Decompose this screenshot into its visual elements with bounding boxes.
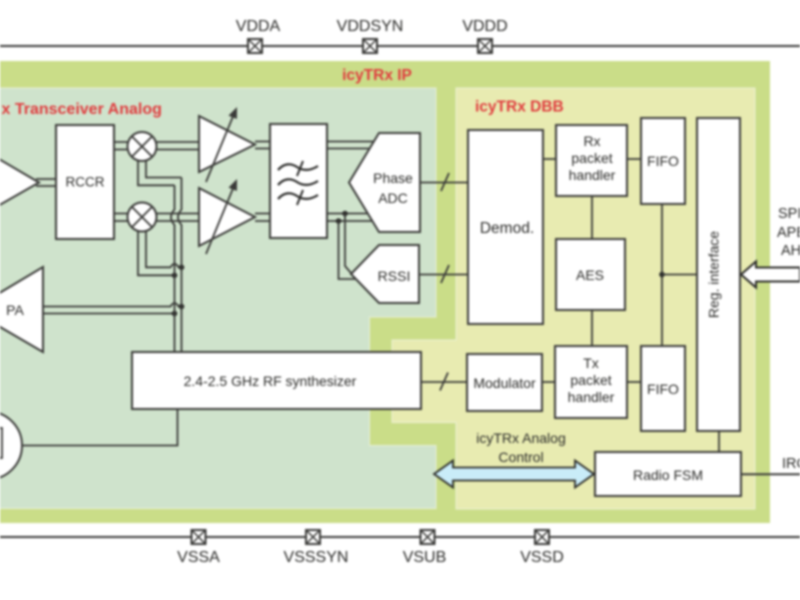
oscillator circle bbox=[0, 412, 22, 480]
region Transceiver Analog (sage) bbox=[0, 88, 436, 509]
svg-text:VDDD: VDDD bbox=[462, 18, 507, 35]
wire LO to mixer M1 (outer) bbox=[138, 161, 175, 185]
wire Rx packet handler to AES bbox=[591, 196, 593, 239]
svg-text:Rx: Rx bbox=[583, 133, 600, 149]
wire filter to Phase ADC (lower pair) bbox=[327, 214, 372, 222]
svg-text:SPI: SPI bbox=[778, 206, 800, 222]
block Rx packet handler bbox=[556, 125, 627, 196]
node tap to RSSI (lower) bbox=[336, 218, 342, 224]
outer region icyTRx IP bbox=[0, 61, 770, 523]
svg-text:Modulator: Modulator bbox=[473, 375, 536, 391]
wire amp A2 to filter bbox=[255, 214, 270, 222]
wire Tx packet handler to FIFO Tx bbox=[627, 381, 641, 383]
svg-text:icyTRx DBB: icyTRx DBB bbox=[475, 99, 564, 116]
wire Rx packet handler to FIFO bbox=[627, 158, 641, 160]
svg-text:Tx: Tx bbox=[583, 355, 599, 371]
svg-text:Reg. interface: Reg. interface bbox=[706, 231, 722, 318]
block RSSI bbox=[351, 245, 419, 303]
svg-text:packet: packet bbox=[570, 372, 611, 388]
svg-text:VSSSYN: VSSSYN bbox=[284, 549, 349, 566]
region icyTRx DBB (yellow) bbox=[392, 88, 755, 509]
wire Demod to Rx packet handler bbox=[543, 158, 556, 160]
wire LNA to RCCR (differential pair) bbox=[36, 179, 56, 186]
block RCCR bbox=[56, 125, 114, 239]
svg-text:RCCR: RCCR bbox=[66, 175, 105, 190]
block FIFO Tx bbox=[641, 346, 685, 431]
pad VDDSYN bbox=[337, 18, 404, 53]
wire LO vertical left (from synthesizer, hops signal pair) bbox=[171, 185, 175, 352]
svg-text:AES: AES bbox=[576, 267, 604, 283]
svg-text:VSUB: VSUB bbox=[403, 549, 447, 566]
block Tx packet handler bbox=[555, 346, 627, 418]
wire LO to mixer M2 (inner, hop + node) bbox=[146, 232, 182, 268]
svg-text:packet: packet bbox=[571, 150, 612, 166]
amp A1 (variable gain) bbox=[199, 107, 255, 182]
wire LO to mixer M1 (inner) bbox=[146, 161, 182, 178]
top supply rail bbox=[0, 45, 800, 47]
wire AES to Tx packet handler bbox=[591, 310, 593, 346]
bottom supply rail bbox=[0, 536, 800, 538]
wire LO vertical right (from synthesizer, hops signal pair) bbox=[178, 178, 182, 353]
amplifier PA bbox=[0, 267, 43, 352]
wire Phase ADC to Demod with bus slash bbox=[420, 173, 468, 191]
svg-text:RSSI: RSSI bbox=[378, 268, 411, 284]
svg-text:VSSA: VSSA bbox=[177, 549, 220, 566]
pad VSSD bbox=[520, 530, 564, 566]
wire FIFO Rx down to FIFO Tx bbox=[661, 204, 663, 346]
pad VSUB bbox=[403, 530, 447, 566]
svg-text:IRQ: IRQ bbox=[782, 456, 800, 472]
svg-text:handler: handler bbox=[568, 389, 615, 405]
arrow icyTRx Analog Control (double headed, blue) bbox=[434, 461, 594, 488]
filter block bbox=[270, 124, 327, 238]
wire tap to RSSI (upper) bbox=[345, 214, 351, 274]
pad VSSSYN bbox=[284, 530, 349, 566]
svg-text:handler: handler bbox=[569, 167, 616, 183]
block Reg interface bbox=[697, 118, 740, 431]
block Phase ADC bbox=[349, 133, 420, 232]
node tap to RSSI (upper) bbox=[342, 211, 348, 217]
wire RSSI to Demod with bus slash bbox=[419, 265, 468, 283]
mixer M2 bbox=[128, 203, 157, 232]
svg-text:PA: PA bbox=[6, 302, 24, 318]
wire Modulator to Tx packet handler bbox=[542, 381, 555, 383]
svg-text:Demod.: Demod. bbox=[480, 220, 534, 237]
svg-text:Phase: Phase bbox=[373, 170, 413, 186]
block AES bbox=[556, 239, 625, 310]
wire Reg interface to Radio FSM bbox=[718, 431, 720, 452]
block RF synthesizer bbox=[132, 352, 421, 409]
wire mixer M1 to amp A1 bbox=[156, 142, 199, 150]
wire synthesizer to Modulator with bus slash bbox=[421, 373, 467, 391]
wire amp A1 to filter bbox=[255, 142, 270, 149]
svg-text:ADC: ADC bbox=[378, 190, 408, 206]
svg-text:Radio FSM: Radio FSM bbox=[633, 467, 703, 483]
svg-text:icyTRx IP: icyTRx IP bbox=[342, 67, 412, 84]
pad VDDD bbox=[462, 18, 507, 53]
block Modulator bbox=[467, 354, 542, 411]
amp A2 (variable gain) bbox=[199, 179, 255, 254]
mixer M1 bbox=[128, 132, 157, 161]
arrow SPI/APB/AHB (white, into Reg interface) bbox=[741, 262, 800, 288]
wire PA input upper (hops left LO line, joins right LO line) bbox=[43, 303, 182, 307]
svg-text:FIFO: FIFO bbox=[647, 153, 679, 169]
pad VDDA bbox=[236, 18, 281, 53]
wire RCCR to mixer M2 bbox=[114, 214, 128, 222]
node FIFO column to Reg interface bbox=[659, 272, 665, 278]
wire synthesizer to oscillator bbox=[22, 409, 178, 446]
wire LO to mixer M2 (outer, node) bbox=[138, 232, 175, 276]
wire filter to Phase ADC (upper pair) bbox=[327, 142, 374, 149]
wire Radio FSM to IRQ bbox=[741, 473, 800, 475]
svg-text:x Transceiver Analog: x Transceiver Analog bbox=[2, 101, 162, 118]
svg-text:FIFO: FIFO bbox=[647, 381, 679, 397]
svg-text:Control: Control bbox=[498, 449, 543, 465]
wire RCCR to mixer M1 bbox=[114, 142, 128, 150]
wire mixer M2 to amp A2 bbox=[156, 214, 199, 222]
block Demod bbox=[468, 130, 543, 324]
svg-text:AHB: AHB bbox=[781, 243, 800, 259]
block FIFO Rx bbox=[641, 118, 685, 204]
svg-text:icyTRx Analog: icyTRx Analog bbox=[476, 430, 565, 446]
pad VSSA bbox=[177, 530, 220, 566]
svg-text:VDDA: VDDA bbox=[236, 18, 281, 35]
svg-text:VDDSYN: VDDSYN bbox=[337, 18, 404, 35]
svg-text:2.4-2.5 GHz RF synthesizer: 2.4-2.5 GHz RF synthesizer bbox=[184, 373, 357, 389]
svg-text:APB: APB bbox=[777, 225, 800, 241]
svg-text:VSSD: VSSD bbox=[520, 549, 564, 566]
node PA upper on LO line bbox=[179, 304, 185, 310]
wire node to Reg interface bbox=[662, 274, 697, 276]
node PA lower on LO line bbox=[172, 311, 178, 317]
wire tap to RSSI (lower) bbox=[339, 221, 356, 279]
amplifier LNA bbox=[0, 145, 39, 219]
wire PA input lower bbox=[43, 313, 175, 315]
block Radio FSM bbox=[595, 452, 741, 496]
